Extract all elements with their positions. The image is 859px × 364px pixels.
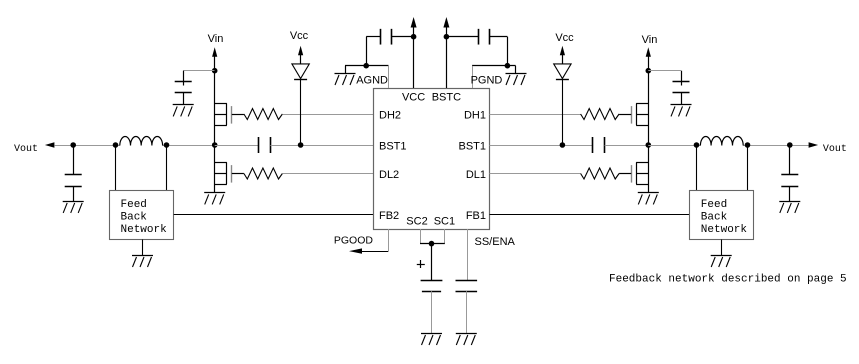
IC U1 controller box	[374, 89, 490, 230]
svg-text:BST1: BST1	[379, 140, 407, 152]
pin label BST1 left	[379, 140, 407, 152]
arrow Vout right	[809, 142, 819, 147]
wire DL1	[490, 173, 581, 175]
capacitor AGND decoupling	[366, 29, 413, 66]
arrow PGOOD	[349, 248, 362, 253]
svg-text:DL1: DL1	[466, 169, 486, 181]
ground Q3 source right	[638, 193, 659, 205]
wire feedback taps left	[116, 145, 167, 191]
ground Q4 source left	[204, 193, 225, 205]
wire PGOOD horizontal	[361, 251, 388, 253]
note feedback network reference	[609, 274, 847, 286]
node SC junction	[429, 241, 435, 247]
pin label VCC	[402, 91, 425, 103]
node BST1 diode junction left	[298, 142, 304, 148]
pin label BSTC	[432, 91, 461, 103]
power Vin left arrow	[212, 47, 217, 70]
wire diode to BST1 left	[300, 79, 302, 145]
ground output cap right	[779, 202, 800, 213]
ground SS cap	[456, 334, 477, 346]
svg-text:SC1: SC1	[434, 216, 455, 228]
svg-text:Feedback network described on: Feedback network described on page 5	[609, 274, 847, 286]
capacitor input right	[673, 71, 690, 105]
wire SC cap to ground	[431, 291, 433, 333]
wire switch node vertical left	[214, 71, 216, 193]
node switch right	[646, 142, 652, 148]
node inductor L2 left end	[113, 142, 119, 148]
capacitor SS	[456, 281, 478, 292]
node PGND junction	[505, 63, 511, 69]
label Vcc left	[290, 30, 309, 42]
pin label SC1	[434, 216, 455, 228]
ground output cap left	[63, 202, 84, 213]
wire AGND bracket	[345, 66, 389, 89]
svg-text:Vin: Vin	[642, 34, 658, 46]
wire SC bracket	[420, 243, 445, 245]
svg-text:AGND: AGND	[356, 75, 388, 87]
pin label DH2	[379, 109, 401, 121]
svg-text:DH2: DH2	[379, 109, 401, 121]
wire BST1 right	[490, 145, 593, 147]
label plus polarity	[417, 260, 425, 268]
arrow Vout left	[45, 142, 55, 147]
feedback network box left	[110, 191, 174, 240]
pin label DL2	[379, 169, 399, 181]
node inductor L1 right end	[745, 142, 751, 148]
svg-text:Vin: Vin	[208, 33, 224, 45]
capacitor BST1 right	[593, 137, 605, 153]
label Vout (left)	[14, 144, 38, 155]
svg-text:Vcc: Vcc	[555, 32, 574, 44]
wire FB2	[174, 214, 374, 216]
power Vcc left arrow	[298, 46, 303, 64]
svg-text:DH1: DH1	[464, 109, 486, 121]
node BSTC cap tap	[444, 34, 450, 40]
wire PGOOD pin	[388, 229, 390, 251]
ground input cap left	[173, 105, 194, 117]
pin label SC2	[406, 216, 427, 228]
svg-text:DL2: DL2	[379, 169, 399, 181]
ground SC cap	[421, 334, 442, 346]
svg-text:Network: Network	[701, 224, 748, 236]
inductor L1	[700, 137, 743, 146]
resistor gate DH1	[581, 109, 620, 120]
ground feedback network right	[711, 240, 732, 268]
svg-text:Vout: Vout	[14, 144, 38, 155]
svg-text:VCC: VCC	[402, 91, 425, 103]
capacitor SC electrolytic	[421, 281, 443, 292]
ground PGND	[506, 74, 527, 86]
svg-text:Feed: Feed	[701, 199, 727, 211]
label PGOOD	[334, 234, 374, 246]
pin label FB1	[466, 210, 486, 222]
node BST1 diode junction right	[560, 142, 566, 148]
wire Vout rail right	[648, 145, 808, 147]
label Vout (right)	[823, 144, 847, 155]
label Vin left	[208, 33, 224, 45]
label SS/ENA	[475, 236, 516, 248]
svg-text:BSTC: BSTC	[432, 91, 461, 103]
svg-text:Feed: Feed	[121, 199, 147, 211]
capacitor input left	[175, 71, 192, 105]
node output cap tap right	[787, 142, 793, 148]
feedback network box right	[690, 191, 754, 240]
node inductor L1 left end	[694, 142, 700, 148]
ground AGND	[335, 74, 356, 86]
resistor gate DL2	[244, 168, 283, 179]
wire diode to BST1 right	[562, 79, 564, 145]
svg-text:Back: Back	[121, 212, 148, 224]
node inductor L2 right end	[164, 142, 170, 148]
diode bootstrap right	[554, 64, 571, 80]
wire FB1	[490, 214, 690, 216]
svg-text:BST1: BST1	[458, 140, 486, 152]
transistor Q4 low-side left	[215, 163, 244, 185]
node output cap tap left	[70, 142, 76, 148]
wire input cap branch right	[648, 70, 681, 72]
label Vin right	[642, 34, 658, 46]
wire DH2	[282, 114, 373, 116]
wire SC2 pin	[420, 229, 422, 244]
svg-text:FB1: FB1	[466, 210, 486, 222]
diode bootstrap left	[292, 64, 309, 80]
power Vcc right arrow	[560, 46, 565, 64]
svg-text:FB2: FB2	[379, 210, 399, 222]
pin label BST1 right	[458, 140, 486, 152]
label PGND	[471, 75, 503, 87]
pin label DL1	[466, 169, 486, 181]
node Vin junction left	[212, 68, 218, 74]
wire SC1 pin	[444, 229, 446, 244]
svg-text:SC2: SC2	[406, 216, 427, 228]
wire DL2	[282, 173, 373, 175]
ground input cap right	[671, 105, 692, 117]
inductor L2	[120, 137, 163, 146]
wire SS cap to ground	[466, 291, 468, 333]
wire Vout rail left	[54, 145, 214, 147]
power BSTC pin arrow	[443, 17, 449, 88]
label AGND	[356, 75, 388, 87]
resistor gate DL1	[581, 168, 620, 179]
svg-text:Network: Network	[121, 224, 168, 236]
svg-text:Vcc: Vcc	[290, 30, 309, 42]
transistor Q1 high-side right	[619, 104, 648, 126]
capacitor output left	[65, 145, 82, 201]
node AGND junction	[363, 63, 369, 69]
capacitor BST1 left	[259, 137, 271, 153]
wire switch to BST cap left	[215, 145, 259, 147]
power VCC pin arrow	[411, 17, 417, 88]
svg-text:Vout: Vout	[823, 144, 847, 155]
capacitor output right	[781, 145, 798, 201]
wire feedback taps right	[697, 145, 748, 191]
transistor Q3 low-side right	[619, 163, 648, 185]
pin label DH1	[464, 109, 486, 121]
wire DH1	[490, 114, 581, 116]
svg-text:PGOOD: PGOOD	[334, 234, 374, 246]
power Vin right arrow	[646, 47, 651, 70]
wire input cap branch left	[183, 70, 215, 72]
svg-text:PGND: PGND	[471, 75, 503, 87]
label Vcc right	[555, 32, 574, 44]
wire SS/ENA pin	[467, 229, 469, 281]
ground feedback network left	[132, 240, 153, 268]
node Vin junction right	[646, 68, 652, 74]
wire switch node vertical right	[648, 71, 650, 193]
wire BST cap to switch right	[605, 145, 649, 147]
wire PGND bracket	[472, 66, 516, 89]
pin label FB2	[379, 210, 399, 222]
wire SC to cap	[431, 244, 433, 281]
node VCC cap tap	[411, 34, 417, 40]
wire BST1 left	[270, 145, 373, 147]
svg-text:Back: Back	[701, 212, 728, 224]
transistor Q2 high-side left	[215, 104, 244, 126]
node switch left	[212, 142, 218, 148]
capacitor PGND decoupling	[446, 29, 507, 66]
svg-text:SS/ENA: SS/ENA	[475, 236, 516, 248]
resistor gate DH2	[244, 109, 283, 120]
